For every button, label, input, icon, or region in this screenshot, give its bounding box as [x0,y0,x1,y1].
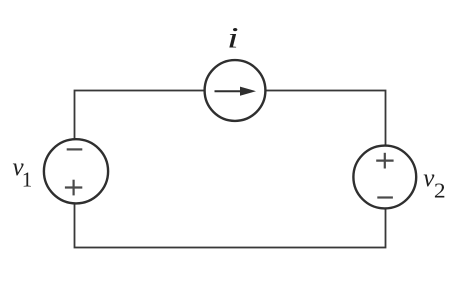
voltage source V2 [353,146,416,209]
wire [75,91,386,248]
voltage source V1 [44,139,108,203]
V2 plus sign [376,153,393,169]
current arrow [215,87,257,96]
svg-text:2: 2 [434,179,446,203]
V1 plus sign [65,180,82,196]
svg-text:1: 1 [22,168,33,192]
V1 minus sign [67,148,83,150]
V2 minus sign [377,196,393,198]
label v2 [423,165,445,202]
label v1 [13,154,33,192]
current source I [205,60,266,121]
svg-text:i: i [227,20,239,54]
